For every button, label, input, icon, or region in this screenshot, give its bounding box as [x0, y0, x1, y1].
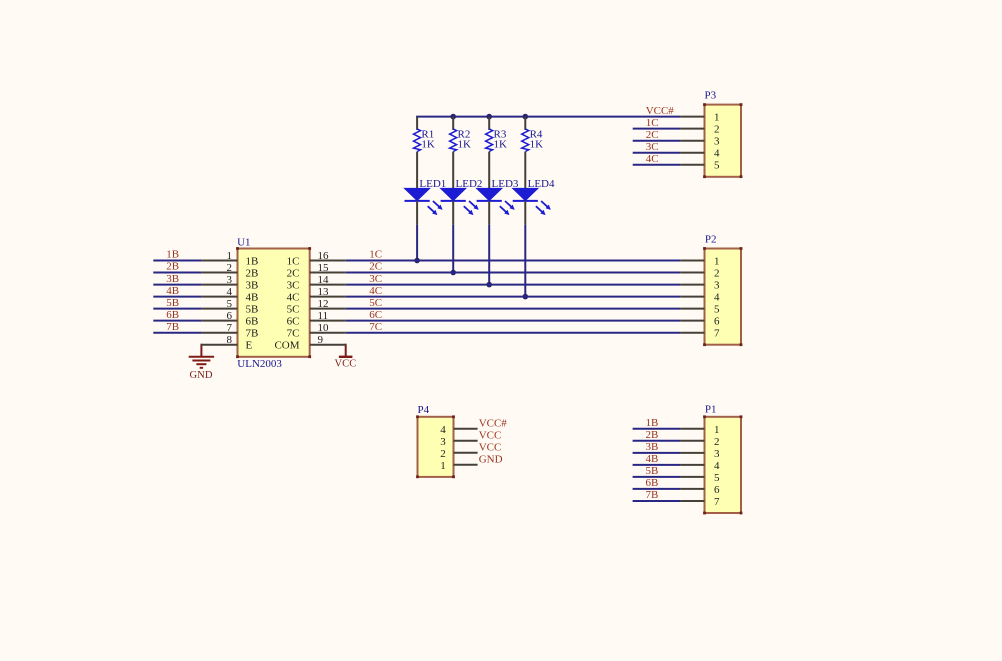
svg-text:14: 14 — [318, 274, 330, 286]
net label 3C (middle) — [369, 273, 382, 285]
wire net 5B to U1 pin 5 — [153, 308, 201, 310]
net label 4B (left) — [166, 285, 179, 297]
svg-text:4: 4 — [227, 286, 233, 298]
svg-text:7: 7 — [227, 322, 233, 334]
wire net 4B to U1 pin 4 — [153, 296, 201, 298]
svg-text:7B: 7B — [166, 321, 179, 333]
U1 pin 12 (5C) — [287, 298, 346, 316]
svg-text:15: 15 — [318, 262, 330, 274]
net label 5C (middle) — [369, 297, 382, 309]
P2 pin 2 — [680, 268, 719, 280]
svg-text:VCC#: VCC# — [646, 105, 675, 117]
wire LED1 cathode down to 1C row — [416, 225, 418, 261]
junction on VCC# bus at R3 top — [486, 114, 492, 120]
U1 pin 3 (3B) — [201, 274, 258, 292]
wire net 6B to P1 pin 6 — [633, 488, 681, 490]
net label 2C (top) — [646, 129, 659, 141]
svg-text:12: 12 — [318, 298, 329, 310]
P3 pin 5 — [680, 160, 720, 172]
junction LED4 wire on 4C net — [523, 294, 529, 300]
svg-text:ULN2003: ULN2003 — [237, 358, 282, 370]
svg-text:2: 2 — [714, 124, 720, 136]
svg-text:E: E — [246, 340, 253, 352]
LED LED2 — [441, 178, 483, 225]
svg-text:P1: P1 — [705, 404, 717, 416]
wire net 3C from U1 to P2 pin 3 — [346, 284, 681, 286]
svg-text:1K: 1K — [494, 139, 508, 151]
svg-text:VCC: VCC — [479, 429, 502, 441]
net label 6C (middle) — [369, 309, 382, 321]
svg-text:2B: 2B — [246, 268, 259, 280]
connector P1 (7-pin header) — [703, 404, 742, 515]
resistor R4 1K — [522, 117, 543, 189]
svg-text:6B: 6B — [246, 316, 259, 328]
junction LED3 wire on 3C net — [486, 282, 492, 288]
resistor R1 1K — [414, 117, 435, 189]
connector P3 (5-pin header) — [703, 89, 742, 178]
net label 7B (bottom) — [646, 489, 659, 501]
P3 pin 2 — [680, 124, 719, 136]
net label 1C (top) — [646, 117, 659, 129]
svg-text:3: 3 — [440, 436, 446, 448]
svg-text:1: 1 — [227, 250, 233, 262]
resistor R2 1K — [450, 117, 471, 189]
net label 2C (middle) — [369, 261, 382, 273]
connector P4 (4-pin power header) — [416, 404, 455, 478]
svg-text:5: 5 — [714, 160, 720, 172]
svg-text:11: 11 — [318, 310, 329, 322]
P1 pin 3 — [680, 448, 720, 460]
svg-text:3: 3 — [714, 448, 720, 460]
net label 4C (top) — [646, 153, 659, 165]
wire net 5C from U1 to P2 pin 5 — [346, 308, 681, 310]
svg-text:16: 16 — [318, 250, 330, 262]
net label VCC# — [646, 105, 675, 117]
svg-text:3C: 3C — [646, 141, 659, 153]
svg-text:3: 3 — [227, 274, 233, 286]
P3 pin 1 — [680, 112, 719, 124]
svg-text:3C: 3C — [369, 273, 382, 285]
svg-text:VCC: VCC — [479, 441, 502, 453]
svg-text:1C: 1C — [646, 117, 659, 129]
svg-text:GND: GND — [479, 453, 503, 465]
net label 3C (top) — [646, 141, 659, 153]
svg-text:1K: 1K — [421, 139, 435, 151]
svg-text:2B: 2B — [646, 429, 659, 441]
svg-text:6B: 6B — [646, 477, 659, 489]
junction on VCC# bus at R2 top — [450, 114, 456, 120]
wire net 2C from U1 to P2 pin 2 — [346, 272, 681, 274]
wire net 2C to P3 pin 3 — [633, 140, 681, 142]
wire net 1B to P1 pin 1 — [633, 428, 681, 430]
wire net 4B to P1 pin 4 — [633, 464, 681, 466]
svg-text:1B: 1B — [166, 249, 179, 261]
P2 pin 7 — [680, 328, 720, 340]
svg-text:5: 5 — [714, 304, 720, 316]
svg-text:4C: 4C — [287, 292, 300, 304]
svg-text:5: 5 — [714, 472, 720, 484]
net label 3B (left) — [166, 273, 179, 285]
P1 pin 6 — [680, 484, 720, 496]
wire net 7B to U1 pin 7 — [153, 332, 201, 334]
wire net 7C from U1 to P2 pin 7 — [346, 332, 681, 334]
svg-text:4C: 4C — [369, 285, 382, 297]
wire net 3B to U1 pin 3 — [153, 284, 201, 286]
wire net 4C to P3 pin 5 — [633, 164, 681, 166]
svg-text:1: 1 — [714, 112, 720, 124]
P2 pin 3 — [680, 280, 720, 292]
net label 6B (left) — [166, 309, 179, 321]
net label 4C (middle) — [369, 285, 382, 297]
net label 1C (middle) — [369, 249, 382, 261]
svg-text:3B: 3B — [166, 273, 179, 285]
svg-text:2: 2 — [714, 436, 720, 448]
svg-text:5B: 5B — [246, 304, 259, 316]
net label GND (P4) — [479, 453, 503, 465]
wire net 3B to P1 pin 3 — [633, 452, 681, 454]
svg-text:7: 7 — [714, 328, 720, 340]
svg-text:6B: 6B — [166, 309, 179, 321]
svg-text:1B: 1B — [646, 417, 659, 429]
svg-text:P3: P3 — [705, 89, 717, 101]
svg-text:P4: P4 — [418, 404, 430, 416]
P4 pin 3 — [440, 436, 477, 448]
wire net 6C from U1 to P2 pin 6 — [346, 320, 681, 322]
svg-text:5C: 5C — [369, 297, 382, 309]
wire net 1C from U1 to P2 pin 1 — [346, 260, 681, 262]
IC U1 ULN2003 body — [236, 237, 311, 370]
U1 pin 5 (5B) — [201, 298, 258, 316]
svg-text:VCC#: VCC# — [479, 417, 508, 429]
net label 5B (left) — [166, 297, 179, 309]
svg-text:4B: 4B — [646, 453, 659, 465]
U1 pin 2 (2B) — [201, 262, 258, 280]
svg-text:13: 13 — [318, 286, 330, 298]
svg-text:1: 1 — [714, 424, 720, 436]
svg-text:2: 2 — [440, 448, 446, 460]
wire LED4 cathode down to 4C row — [524, 225, 526, 297]
svg-text:GND: GND — [190, 370, 213, 381]
U1 pin 9 (COM) — [274, 334, 345, 352]
net label 2B (left) — [166, 261, 179, 273]
wire net 2B to U1 pin 2 — [153, 272, 201, 274]
svg-text:4C: 4C — [646, 153, 659, 165]
svg-text:1K: 1K — [458, 139, 472, 151]
svg-text:4: 4 — [714, 148, 720, 160]
P2 pin 6 — [680, 316, 720, 328]
P4 pin 2 — [440, 448, 477, 460]
svg-text:10: 10 — [318, 322, 330, 334]
P3 pin 3 — [680, 136, 720, 148]
svg-text:7B: 7B — [646, 489, 659, 501]
svg-text:1C: 1C — [369, 249, 382, 261]
junction on VCC# bus at R4 top — [523, 114, 529, 120]
P1 pin 5 — [680, 472, 720, 484]
svg-text:8: 8 — [227, 334, 233, 346]
wire U1 pin 8 (E) to ground — [200, 344, 202, 346]
svg-text:1C: 1C — [287, 256, 300, 268]
junction LED1 wire on 1C net — [414, 258, 420, 264]
wire LED2 cathode down to 2C row — [452, 225, 454, 273]
net label 2B (bottom) — [646, 429, 659, 441]
wire net 7B to P1 pin 7 — [633, 500, 681, 502]
wire net 2B to P1 pin 2 — [633, 440, 681, 442]
net label 7C (middle) — [369, 321, 382, 333]
net label 1B (left) — [166, 249, 179, 261]
net label VCC (P4) — [479, 441, 502, 453]
wire net 3C to P3 pin 4 — [633, 152, 681, 154]
net label 5B (bottom) — [646, 465, 659, 477]
net label 4B (bottom) — [646, 453, 659, 465]
P1 pin 4 — [680, 460, 720, 472]
svg-text:1B: 1B — [246, 256, 259, 268]
junction LED2 wire on 2C net — [450, 270, 456, 276]
svg-text:3B: 3B — [646, 441, 659, 453]
svg-text:3C: 3C — [287, 280, 300, 292]
U1 pin 16 (1C) — [287, 250, 346, 268]
U1 pin 11 (6C) — [287, 310, 346, 328]
resistor R3 1K — [486, 117, 507, 189]
svg-text:1K: 1K — [530, 139, 544, 151]
svg-text:3: 3 — [714, 280, 720, 292]
svg-text:2C: 2C — [646, 129, 659, 141]
svg-text:1: 1 — [714, 256, 720, 268]
svg-text:4: 4 — [440, 424, 446, 436]
svg-text:3: 3 — [714, 136, 720, 148]
wire LED3 cathode down to 3C row — [488, 225, 490, 285]
svg-text:6: 6 — [714, 484, 720, 496]
svg-text:P2: P2 — [705, 233, 717, 245]
U1 pin 8 (E) — [201, 334, 252, 352]
svg-text:2B: 2B — [166, 261, 179, 273]
svg-text:2: 2 — [227, 262, 233, 274]
svg-text:6: 6 — [227, 310, 233, 322]
P1 pin 1 — [680, 424, 719, 436]
net label VCC# (P4) — [479, 417, 508, 429]
net label 7B (left) — [166, 321, 179, 333]
U1 pin 15 (2C) — [287, 262, 346, 280]
connector P2 (7-pin header) — [703, 233, 742, 346]
net label 6B (bottom) — [646, 477, 659, 489]
svg-text:6C: 6C — [369, 309, 382, 321]
wire net 6B to U1 pin 6 — [153, 320, 201, 322]
svg-text:5: 5 — [227, 298, 233, 310]
svg-text:2C: 2C — [369, 261, 382, 273]
wire net 5B to P1 pin 5 — [633, 476, 681, 478]
wire net 1B to U1 pin 1 — [153, 260, 201, 262]
svg-text:2C: 2C — [287, 268, 300, 280]
P2 pin 4 — [680, 292, 720, 304]
svg-text:3B: 3B — [246, 280, 259, 292]
LED LED1 — [405, 178, 447, 225]
svg-text:4: 4 — [714, 460, 720, 472]
svg-text:4B: 4B — [246, 292, 259, 304]
net label 1B (bottom) — [646, 417, 659, 429]
svg-text:5C: 5C — [287, 304, 300, 316]
U1 pin 4 (4B) — [201, 286, 258, 304]
wire net 1C to P3 pin 2 — [633, 128, 681, 130]
svg-text:4: 4 — [714, 292, 720, 304]
svg-text:6C: 6C — [287, 316, 300, 328]
svg-text:7C: 7C — [287, 328, 300, 340]
svg-text:7B: 7B — [246, 328, 259, 340]
svg-text:5B: 5B — [166, 297, 179, 309]
wire net 4C from U1 to P2 pin 4 — [346, 296, 681, 298]
U1 pin 10 (7C) — [287, 322, 346, 340]
svg-text:COM: COM — [274, 340, 299, 352]
U1 pin 1 (1B) — [201, 250, 258, 268]
svg-text:VCC: VCC — [335, 358, 357, 369]
U1 pin 6 (6B) — [201, 310, 258, 328]
LED LED4 — [513, 178, 555, 225]
U1 pin 14 (3C) — [287, 274, 346, 292]
P2 pin 1 — [680, 256, 719, 268]
P1 pin 2 — [680, 436, 719, 448]
svg-text:6: 6 — [714, 316, 720, 328]
P4 pin 4 — [440, 424, 477, 436]
svg-text:5B: 5B — [646, 465, 659, 477]
svg-text:7C: 7C — [369, 321, 382, 333]
net label VCC (P4) — [479, 429, 502, 441]
svg-text:2: 2 — [714, 268, 720, 280]
P1 pin 7 — [680, 496, 720, 508]
U1 pin 7 (7B) — [201, 322, 258, 340]
P4 pin 1 — [440, 460, 477, 472]
svg-text:4B: 4B — [166, 285, 179, 297]
P3 pin 4 — [680, 148, 720, 160]
svg-text:1: 1 — [440, 460, 446, 472]
svg-text:LED4: LED4 — [528, 178, 555, 190]
wire VCC# bus from R1 top to P3 pin 1 — [416, 116, 680, 118]
LED LED3 — [477, 178, 519, 225]
ground GND power port — [189, 346, 214, 381]
U1 pin 13 (4C) — [287, 286, 346, 304]
svg-text:9: 9 — [318, 334, 324, 346]
VCC power port on U1 pin 9 (COM) — [335, 344, 357, 370]
net label 3B (bottom) — [646, 441, 659, 453]
svg-text:U1: U1 — [237, 237, 250, 249]
P2 pin 5 — [680, 304, 720, 316]
svg-text:7: 7 — [714, 496, 720, 508]
